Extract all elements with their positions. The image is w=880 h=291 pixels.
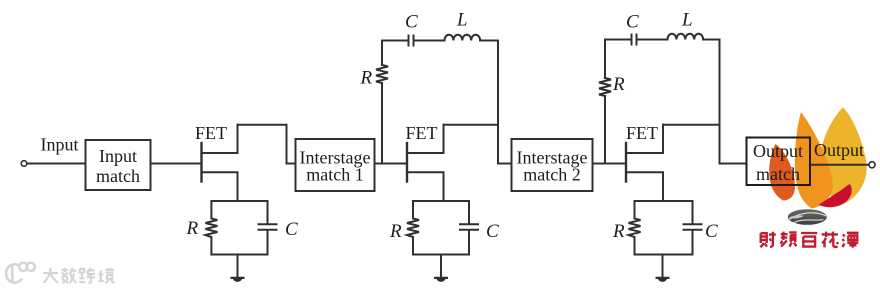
input terminal [21,161,27,167]
ground 1 [231,277,245,282]
glyph 数 [62,268,77,283]
svg-text:match 2: match 2 [523,165,580,185]
watermark text 大数跨境 [43,268,114,283]
glyph 跨 [79,268,95,283]
capacitor C3 [460,201,478,255]
feedback resistor R4 branch vertical [604,40,606,164]
svg-text:FET: FET [626,123,658,143]
svg-text:match: match [96,166,140,186]
capacitor C5 [684,201,702,255]
glyph 大 [43,268,58,283]
resistor R1 [205,201,217,255]
svg-text:Input: Input [41,135,79,155]
RC network 2 bottom rail [413,254,469,256]
wire feedback top left [382,40,404,42]
wire feedback top left (stage3) [605,39,627,41]
Interstage match 1 box [296,139,375,191]
svg-text:C: C [705,221,718,242]
capacitor C4 (feedback) [627,35,668,45]
red swoosh [819,184,852,207]
svg-text:Output: Output [753,141,803,161]
transistor FET2 channel bar [406,143,408,182]
svg-text:C: C [486,221,499,242]
wire Interstage1 to FET2 gate [375,163,407,165]
logo text 射频百花潭 [761,232,859,248]
RC network 1 bottom rail [211,254,267,256]
logo flame leaves [769,107,866,224]
svg-text:FET: FET [195,123,227,143]
svg-text:R: R [389,221,402,242]
amber leaf [795,112,833,209]
glyph 境 [98,268,114,283]
Interstage match 2 box [512,139,593,191]
capacitor C1 [259,201,277,255]
svg-text:C: C [626,12,639,33]
output terminal [869,162,875,168]
FET1 drain lead [202,125,238,153]
glyph 射 [761,232,776,248]
watermark icon [6,263,35,283]
svg-text:R: R [186,218,199,239]
glyph 潭 [842,233,858,248]
red-orange leaf [769,144,795,201]
resistor R4 (feedback) [599,78,611,96]
svg-text:match: match [756,164,800,184]
ground 2 [434,277,448,282]
svg-text:Output: Output [814,140,864,160]
svg-text:C: C [285,219,298,240]
wire to ground 1 [237,255,239,278]
wire FET1 drain top [238,125,296,164]
RC network 2 top rail [413,200,469,202]
svg-text:FET: FET [406,123,438,143]
svg-text:C: C [405,12,418,33]
FET3 drain lead [626,125,663,153]
capacitor C2 (feedback) [404,36,445,46]
resistor R2 (feedback) [376,65,388,83]
svg-text:L: L [681,10,693,31]
FET3 source lead [626,172,663,201]
svg-text:match 1: match 1 [306,165,363,185]
transistor FET1 channel bar [200,143,202,182]
svg-text:R: R [612,221,625,242]
wire FET3 drain top [663,124,720,126]
svg-text:L: L [456,10,468,31]
wire feedback top right [480,41,498,164]
inductor L2 (feedback) [445,35,481,41]
RC network 3 top rail [635,200,693,202]
glyph 频 [781,232,797,247]
svg-text:R: R [360,68,373,89]
transistor FET3 channel bar [625,143,627,182]
wire FET2 drain top [444,124,499,126]
glyph 百 [801,233,817,247]
metallic ellipse [788,209,827,225]
Output match box [747,138,811,186]
svg-text:R: R [612,74,625,95]
FET1 source lead [202,172,238,201]
feedback resistor R2 branch vertical [381,41,383,164]
wire Output match to output terminal [810,164,869,166]
FET2 drain lead [407,125,444,153]
wire Interstage2 to FET3 gate [593,163,626,165]
resistor R3 [407,201,419,255]
yellow leaf [820,107,867,204]
wire to ground 3 [662,255,664,278]
wire input terminal to Input match [27,163,86,165]
ground 3 [656,277,670,282]
resistor R5 [629,201,641,255]
svg-text:Input: Input [99,146,137,166]
inductor L4 (feedback) [668,34,704,40]
RC network 3 bottom rail [635,254,693,256]
wire to Interstage match 2 [498,163,512,165]
wire to ground 2 [440,255,442,278]
wire to Output match [720,163,747,165]
Input match box [86,140,151,190]
glyph 花 [822,232,838,248]
RC network 1 top rail [212,200,268,202]
wire feedback top right (stage3) [703,40,719,164]
FET2 source lead [407,172,444,201]
wire Input match to FET1 gate [151,163,202,165]
